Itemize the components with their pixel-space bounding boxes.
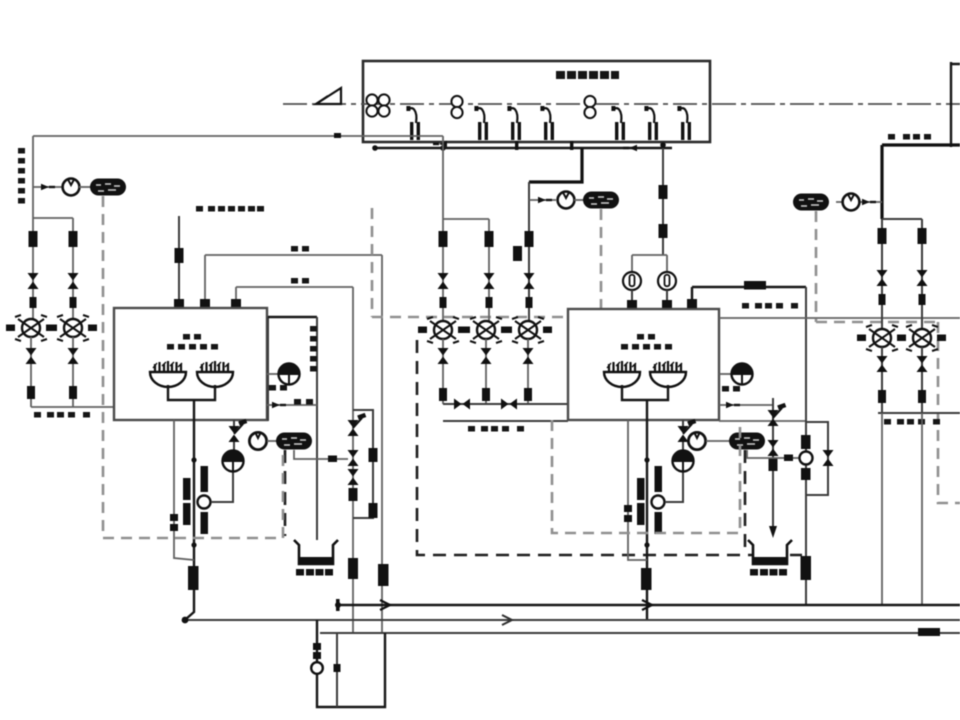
wire: dash-dot centerline	[283, 103, 960, 105]
label: vertical pipe code left margin	[18, 148, 25, 204]
valve: gate under CV1	[26, 348, 37, 364]
valve block on mid drain main	[641, 568, 652, 590]
valve V7 header	[677, 106, 691, 140]
valve block bottom B	[69, 386, 77, 399]
tick on feed line	[334, 133, 341, 138]
wire: dashed stem of FT2	[600, 209, 603, 317]
wire: dashed stem of FT3	[816, 211, 938, 322]
wire: oval to loop line	[294, 450, 348, 459]
flash tank T1	[294, 540, 338, 576]
valve: gate under CV4	[481, 348, 492, 364]
wire: right columns to bottom header	[878, 347, 960, 413]
node: bus2 start dot	[182, 617, 189, 624]
label: vertical pipe code on leg	[310, 326, 317, 372]
instrument oval LT2	[729, 433, 765, 450]
valve block mid column A lower	[440, 297, 447, 308]
three-way control valve CV6	[857, 325, 906, 351]
wire: drain bus 1	[338, 604, 960, 606]
valve block right column B	[918, 228, 927, 244]
wire: gray dashed enclosure bottom	[103, 455, 283, 538]
valve block on wrap top	[744, 281, 766, 290]
node: bus1 start tick	[336, 599, 340, 611]
instrument oval LT1	[276, 433, 312, 450]
valve hand-wheel circle on manifold	[198, 496, 211, 509]
pump P1	[63, 179, 80, 196]
label: pipe code under manifold	[34, 412, 90, 418]
valve: flag valve on riser 353	[348, 413, 367, 436]
valve: gate under CV6	[877, 356, 888, 372]
valve block right column A lower	[879, 294, 886, 305]
wire: shell to level pump mid	[719, 373, 732, 375]
valve: gate right column A	[877, 270, 888, 286]
wire: mid manifold link to pump stem	[665, 472, 683, 502]
valve block manifold right bar upper	[201, 466, 209, 492]
valve block on riser 353	[349, 488, 358, 501]
valve block on bypass	[170, 514, 178, 521]
wire: pump branch mid	[529, 199, 556, 201]
wire: black dashed stem of LT1	[284, 450, 287, 536]
label: pipe code right bottom	[884, 419, 940, 425]
wire: instrument drop from header pipe	[662, 148, 664, 255]
valve block on riser 383 at bus	[378, 564, 389, 586]
wire: tag riser to heater shell	[178, 216, 180, 308]
wire: right unit feed drop thick	[880, 145, 883, 219]
wire: dome collection funnel mid	[622, 385, 668, 420]
flash tank T2	[748, 540, 792, 576]
wire: drain bypass riser mid	[628, 420, 647, 560]
wire: wrap right leg	[805, 287, 807, 605]
instrument circle LI2	[658, 272, 676, 290]
label: heater E2 name	[621, 334, 672, 350]
wire: top feed line from header to left unit	[33, 135, 443, 137]
wire: bypass loop rectangle	[353, 410, 373, 518]
label: tag on stub	[294, 399, 313, 405]
tag block on bus3	[918, 628, 940, 636]
wire: heater outlet pipe east	[719, 317, 960, 319]
valve V6 header	[644, 106, 658, 140]
wire: left pump branch	[33, 186, 62, 188]
arrow on mid shell stub	[726, 402, 740, 408]
wire: oval to wrap leg mid	[747, 450, 806, 458]
valve cluster: twin-pair circles at header inlet	[366, 94, 389, 116]
valve: lens on manifold line 2	[501, 399, 517, 410]
pump: level pump dark	[279, 363, 300, 385]
pump: drain pump dark	[223, 450, 244, 472]
valve block right bottom B	[918, 390, 926, 403]
wire: recirculation pocket left leg	[317, 620, 385, 707]
valve: gate under CV7	[917, 356, 928, 372]
instrument: stacked circles 8	[451, 96, 462, 118]
valve V4 header	[540, 106, 554, 140]
valve: gate under CV2	[68, 348, 79, 364]
wire: heater level-rect top	[268, 316, 317, 318]
arrow on bus2	[502, 615, 512, 625]
wire: dashed enclosure right leg	[938, 322, 960, 503]
valve: gate on tank riser	[768, 440, 779, 456]
pump: mid level pump dark	[732, 363, 753, 385]
wire: shell to level pump	[267, 373, 278, 375]
valve hand-wheel circle mid manifold	[652, 496, 665, 509]
header box (feedwater distributor)	[363, 61, 710, 142]
valve: gate mid column C	[524, 273, 535, 289]
wire: extraction pipe lower wrap	[236, 287, 353, 633]
wire: heater drain main	[186, 420, 194, 619]
valve: lens on manifold line 1	[454, 399, 470, 410]
node: drain funnel triangle on centerline	[316, 88, 341, 104]
valve block bottom mid C	[524, 388, 532, 401]
wire: mid columns to manifold bottom	[443, 339, 528, 404]
wire: feed drop from header to mid unit	[442, 136, 444, 330]
valve: circle on pocket leg	[311, 662, 323, 674]
valve block on drain main	[188, 566, 199, 590]
wire: vent link	[267, 440, 278, 442]
wire: bracket to level instruments	[632, 255, 667, 272]
valve V3 header	[507, 106, 521, 140]
valve block mid column B lower	[486, 297, 493, 308]
wire: condensate rect jog	[267, 317, 269, 421]
three-way control valve CV7	[897, 325, 946, 351]
label: pipe code above right supply	[888, 134, 931, 140]
valve block on tank riser	[769, 458, 778, 471]
valve: flag valve on tank riser	[768, 403, 787, 426]
wire: feed drop 529	[528, 182, 530, 330]
node: drain junction dots	[191, 457, 196, 462]
arrow on header pipe	[433, 141, 447, 147]
label: pipe code under mid manifold	[468, 426, 524, 432]
tick on loop feed	[328, 456, 337, 463]
arrow on header pipe	[623, 145, 637, 151]
valve block on instrument drop	[659, 185, 668, 199]
arrow on mid pump branch	[538, 197, 552, 203]
valve block on riser 353 at bus	[348, 558, 358, 579]
wire: level-rect right leg	[316, 317, 318, 540]
tick on header pipe	[515, 141, 518, 150]
valve: gate mid column B	[484, 273, 495, 289]
valve: gate on riser 353 lower	[348, 469, 359, 485]
arrow on bus1	[380, 600, 390, 610]
valve block right column A	[878, 228, 887, 244]
pump P2	[558, 192, 575, 209]
wire: long black dashed boundary	[417, 340, 802, 555]
valve block on pocket leg	[313, 643, 321, 650]
tick on pocket inner leg	[334, 664, 341, 672]
arrow on shell drain stub	[272, 402, 286, 408]
three-way control valve CV5	[503, 317, 552, 343]
wire: right bracket	[882, 219, 922, 329]
valve block mid manifold right bar lower	[655, 512, 663, 534]
wire: flag valve stem	[233, 420, 235, 450]
wire: wrap bypass loop	[806, 422, 828, 495]
label: 988 tag upper	[291, 246, 309, 252]
instrument circle LI1	[623, 272, 641, 290]
three-way control valve CV4	[461, 317, 510, 343]
heater E1 shell	[114, 308, 267, 420]
tick on wrap feed	[784, 455, 793, 462]
valve block right bottom A	[878, 390, 886, 403]
valve V5 header	[611, 106, 625, 140]
instrument oval FT1	[90, 179, 126, 196]
valve: gate right column B	[917, 270, 928, 286]
valve block on wrap leg at bus	[801, 556, 812, 580]
valve V2 header	[474, 106, 488, 140]
wire: recirculation pocket inner leg	[336, 633, 338, 707]
three-way control valve CV1	[6, 315, 55, 341]
wire: drain bypass riser	[174, 420, 194, 560]
valve block mid column C	[525, 231, 534, 247]
valve: gate under CV3	[438, 348, 449, 364]
wire: thick feed elbow from header	[529, 148, 582, 182]
wire: drain bus 3	[320, 632, 960, 634]
wire: bracket to twin valve columns	[33, 218, 73, 328]
valve block mid column C lower	[526, 297, 533, 308]
heater E2 dome 1	[604, 361, 640, 387]
wire: manifold link to pump stem	[211, 472, 233, 502]
valve block column A lower	[30, 297, 37, 308]
three-way control valve CV3	[418, 317, 467, 343]
arrow on right pump branch	[862, 199, 876, 205]
wire: dashed instrument stem / enclosure left edge	[102, 196, 105, 538]
label: 988 under level pump	[269, 385, 287, 391]
valve: gate on riser 353	[348, 450, 359, 466]
valve block on loop branch lower	[369, 503, 378, 518]
pump P3	[843, 194, 860, 211]
valve block column B	[69, 231, 78, 247]
valve block column A	[29, 231, 38, 247]
valve block mid column A	[439, 231, 448, 247]
arrow on bus1 at mid drain	[642, 600, 652, 610]
arrow on pump branch	[41, 184, 55, 190]
valve block on wrap leg lower	[801, 468, 811, 480]
wire: left riser	[32, 136, 34, 218]
node: junction dots on header pipe	[372, 145, 378, 151]
valve: gate on column A	[28, 273, 39, 289]
valve block right column B lower	[919, 294, 926, 305]
heater E1 dome 1	[150, 361, 186, 387]
valve: lens on wrap bypass	[823, 450, 834, 466]
label: heater E1 name	[167, 334, 218, 350]
wire: shell drain stub to leg	[267, 404, 317, 406]
valve: flag valve under heater E2	[678, 419, 697, 442]
arrow into tank	[769, 526, 777, 538]
label: 988 tag lower	[291, 278, 309, 284]
wire: right columns to bus	[882, 413, 922, 605]
node: mid drain junction dots	[644, 457, 649, 462]
wire: bracket mid columns	[443, 219, 489, 330]
valve V1 header	[406, 106, 420, 140]
wire: flag valve stem mid	[682, 420, 684, 450]
wire: gray dashed enclosure mid-bottom	[552, 420, 740, 533]
right unit header box (partial)	[951, 62, 960, 147]
three-way control valve CV2	[48, 315, 97, 341]
node: wrap nozzle pad	[687, 299, 697, 308]
heater E1 dome 2	[197, 361, 233, 387]
wire: heater E2 drain main	[646, 420, 648, 620]
heater E2 shell	[568, 309, 719, 420]
valve block manifold left bar	[183, 478, 191, 500]
valve block manifold right bar lower	[201, 512, 209, 534]
instrument: stacked circles 8	[584, 96, 595, 118]
wire: right unit supply line	[882, 143, 960, 146]
valve: vent circle pump left	[249, 432, 266, 449]
valve: gate mid column A	[438, 273, 449, 289]
valve block mid manifold left bar	[637, 478, 645, 500]
wire: mid level wrap top	[692, 287, 806, 308]
valve: flag valve under heater E1	[229, 419, 248, 442]
wire: shell drain stub to leg mid	[719, 404, 773, 406]
wire: vent link mid	[706, 440, 730, 442]
valve block on mid bypass	[624, 505, 632, 512]
valve block column B lower	[70, 297, 77, 308]
valve block on tag riser	[175, 248, 184, 263]
wire: pump to instrument	[79, 186, 92, 188]
wire: mid condensate jog	[719, 420, 806, 422]
wire: tank feed riser	[772, 398, 774, 532]
valve block bypass stub	[513, 246, 522, 261]
node: shell nozzle pads mid	[627, 300, 637, 309]
valve block bottom A	[27, 386, 35, 399]
valve block on loop branch upper	[369, 448, 378, 462]
instrument oval FT3	[793, 194, 829, 211]
wire: header internal pipe	[375, 147, 672, 149]
heater E2 dome 2	[650, 361, 686, 387]
label: header box title	[556, 71, 619, 79]
wire: instrument stems to shell	[632, 290, 667, 309]
wire: black dashed stem of LT2	[744, 450, 747, 555]
label: 988AY254 line tag	[196, 206, 264, 212]
valve block bottom mid A	[439, 388, 447, 401]
pump: mid drain pump dark	[673, 450, 694, 472]
valve block bottom mid B	[482, 388, 490, 401]
valve block mid manifold right bar upper	[655, 466, 663, 492]
label: 988 under mid level pump	[722, 386, 740, 392]
wire: pump to instrument	[574, 199, 584, 201]
wire: extraction pipe upper wrap	[205, 255, 382, 633]
valve: vent circle pump mid	[688, 432, 705, 449]
instrument oval FT2	[583, 192, 619, 209]
node: shell nozzle pads	[174, 299, 184, 308]
wire: gray dashed enclosure mid	[372, 208, 600, 317]
wire: right pump branch	[836, 201, 882, 203]
valve hand-wheel on wrap leg	[800, 452, 813, 465]
wire: columns below control valves	[31, 337, 114, 407]
wire: dome collection funnel	[168, 385, 215, 420]
valve: gate on column B	[68, 273, 79, 289]
valve: gate under CV5	[523, 348, 534, 364]
valve block manifold on wrap leg	[801, 435, 811, 449]
label: pipe code on wrap	[742, 303, 798, 309]
valve block mid column B	[485, 231, 494, 247]
wire: drain bus 2	[184, 619, 960, 621]
